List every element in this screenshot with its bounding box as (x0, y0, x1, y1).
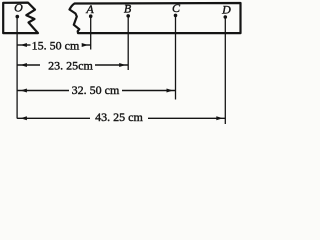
extension line from D (224, 17, 226, 124)
extension line from B (127, 16, 129, 70)
dimension 15.50 cm (O to A) (17, 38, 91, 52)
point C dot (174, 14, 178, 18)
extension line from A (90, 16, 92, 49)
svg-text:A: A (85, 2, 94, 16)
svg-text:O: O (14, 1, 23, 15)
svg-text:23. 25cm: 23. 25cm (48, 58, 93, 72)
dimension 32.50 cm (O to C) (17, 83, 175, 97)
svg-text:C: C (172, 1, 181, 15)
svg-text:32. 50 cm: 32. 50 cm (72, 83, 120, 97)
extension line from O (16, 17, 18, 119)
svg-text:B: B (124, 2, 132, 16)
point A dot (89, 14, 93, 18)
ruler piece right (jagged left edge) (70, 3, 241, 33)
extension line from C (175, 16, 177, 100)
svg-text:15. 50 cm: 15. 50 cm (32, 38, 80, 52)
ruler piece left (broken stick with jagged right edge) (3, 3, 38, 33)
dimension 43.25 cm (O to D) (17, 110, 225, 124)
point B dot (126, 14, 130, 18)
svg-text:43. 25 cm: 43. 25 cm (95, 110, 143, 124)
dimension 23.25 cm (O to B) (17, 58, 128, 72)
svg-text:D: D (221, 3, 231, 17)
point D dot (224, 15, 228, 19)
point O dot (15, 15, 19, 19)
